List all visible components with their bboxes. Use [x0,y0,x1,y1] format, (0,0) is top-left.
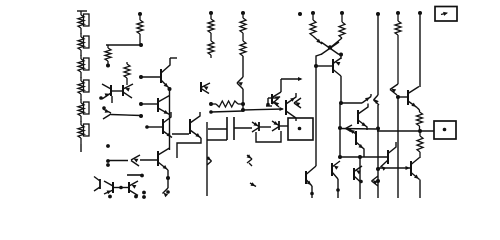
wire W33 [340,76,342,103]
wire W36 [340,128,376,131]
wire W22 [279,125,288,127]
node supply dot A3 [241,11,245,15]
box pad P2 [434,121,456,139]
wire W45 [377,130,434,132]
wire ladder top tick [77,10,87,12]
wire W12 [177,138,201,158]
node N4 [99,96,103,100]
resistor R11 [339,15,345,38]
resistor R1e [78,99,84,122]
node N39 [142,191,146,195]
resistor R8 [124,62,130,85]
node N1 [139,43,143,47]
node N32 [106,163,110,167]
wire W14 [242,104,244,110]
transistor Q37 [247,154,252,166]
node N30 [106,144,110,148]
node N10 [145,125,149,129]
wire W49 [140,159,157,161]
node N20 [338,155,342,159]
node N11 [209,102,213,106]
wire W2 [242,56,244,77]
node supply dot A2 [209,11,213,15]
pad P2 dot [443,128,447,132]
box pad P1 [435,7,457,22]
box pad P3 [288,118,313,140]
resistor R13 [417,110,423,131]
transistor Q2 [163,112,172,138]
node N23 [310,192,314,196]
transistor Q31 [381,142,397,171]
resistor R1c [78,55,84,78]
transistor Q8 [272,92,281,107]
resistor R1d [78,77,84,100]
wire W52 [113,187,129,189]
transistor Q12 [237,77,243,89]
transistor Q26 [354,166,362,183]
wire W31 [340,55,342,60]
wire W41 [397,97,399,198]
node supply dot A4 [298,12,302,16]
transistor Q21 [346,125,353,132]
resistor R9 [211,101,243,107]
node N35 [140,174,144,178]
transistor Q29 [390,84,398,95]
node N34 [166,190,170,194]
node N38 [134,195,138,199]
resistor R4 [208,15,214,33]
node supply dot A1 [138,12,142,16]
transistor Q22 [358,104,368,131]
capacitor C1 plate2 [233,117,235,140]
transistor Q15 [206,156,211,165]
wire W28 [313,36,322,44]
wire W35 [339,103,341,157]
transistor Q19 [294,98,301,108]
transistor Q18 [272,97,280,107]
node N26 [376,167,380,171]
wire ladder bottom [80,144,82,152]
wire W5 [111,96,113,103]
resistor R3 [105,45,111,64]
wire hbar W51 [127,174,143,176]
transistor Q34 [104,181,113,194]
transistor Q24 [332,161,340,198]
resistor R5 [208,33,214,58]
node N6 [139,114,143,118]
wire W16 [280,107,285,111]
wire W11 [172,133,189,135]
transistor Q27 [374,95,380,105]
wire W34 [341,102,362,104]
wire W23 [256,131,281,142]
node N15 [328,45,332,49]
transistor Q16 [252,122,259,132]
node N24 [359,180,363,184]
wire W20 [234,127,252,129]
node supply dot A9 [418,11,422,15]
node N14 [266,103,270,107]
transistor Q13 [102,84,111,99]
transistor Q10 [158,148,170,170]
wire W39 [377,14,379,95]
node N16 [339,53,343,57]
node N18 [339,101,343,105]
transistor Q25 [306,166,316,198]
transistor Q17 [272,121,279,131]
wire W43 [419,15,421,87]
wire W26 [280,79,282,92]
node N27 [376,179,380,183]
wire W9 [141,103,157,105]
wire W3 [242,89,244,104]
transistor Q30 [411,158,420,180]
trim bracket T1c [84,58,90,70]
node supply dot A7 [376,12,380,16]
transistor Q9 [201,82,210,94]
resistor R12 [395,15,401,84]
node N13 [241,108,245,112]
node supply dot A8 [396,11,400,15]
wire W44 [417,108,420,111]
node N7 [139,75,143,79]
wire W25 [281,77,303,81]
transistor Q4 [408,87,419,108]
node N12 [209,110,213,114]
trim bracket T1e [84,102,90,114]
node P3 dot [298,127,302,131]
node supply dot A5 [311,11,315,15]
transistor Q6 [158,96,170,115]
wire W30 [316,54,322,166]
node supply dot A6 [340,11,344,15]
node N17 [314,64,318,68]
wire W8 [169,89,171,150]
trim bracket T1b [84,36,90,48]
wire W21 [259,126,271,128]
transistor Q7 [286,93,296,121]
trim bracket T1f [84,124,90,136]
resistor R10 [310,15,316,36]
pad P1 arrow [441,12,448,16]
transistor Q5 [333,58,341,76]
wire rail W37 [340,156,387,158]
wire W24 [268,98,277,104]
wire W50 [167,170,169,188]
wire W29 [331,38,342,47]
node N31 [106,159,110,163]
transistor Q35 [129,181,138,196]
transistor Q1 [161,58,177,88]
resistor R2 [137,16,143,45]
wire W40 [377,105,379,198]
wire W32 [316,65,332,67]
resistor R7 [240,33,246,56]
wire W10 [147,126,162,128]
transistor Q11 [103,109,111,119]
wire W7 [141,76,160,78]
node N25 [376,127,380,131]
transistor Q33 [163,188,169,197]
wire W19 [206,122,208,196]
node N19 [338,126,342,130]
node N22 [336,188,340,192]
wire W42 [398,96,407,98]
wire W15 [243,109,283,110]
node N28 [396,95,400,99]
node N8 [168,87,172,91]
node N3 [241,102,245,106]
wire W46 [419,180,421,199]
transistor Q20 [362,94,371,103]
resistor R14 [417,131,423,158]
node N2 [106,64,110,68]
wire Xcross [321,42,339,55]
transistor Q3 [190,112,201,138]
node N9 [139,102,143,106]
resistor R1f [78,121,84,144]
transistor Q14 [123,84,133,98]
wire W38 [359,157,361,199]
transistor Q28 [372,176,379,186]
capacitor C1 plate1 [226,117,228,140]
transistor Q36 [94,177,100,192]
wire W17 [208,128,227,130]
resistor R1a [78,11,84,34]
wire W6 [111,115,141,116]
wire W27 [266,105,272,107]
node N40 [142,195,146,199]
node N37 [108,195,112,199]
transistor Q38 [250,182,256,186]
trim bracket T1d [84,80,90,92]
node N5 [102,106,106,110]
resistor R1b [78,33,84,56]
wire W47 [378,166,410,170]
wire W4 [111,90,123,92]
wire W48 [108,160,128,162]
transistor Q23 [349,129,364,157]
transistor Q32 [131,155,140,166]
node N36 [119,186,123,190]
resistor R6 [240,15,246,33]
node N29 [418,129,422,133]
node N33 [166,176,170,180]
wire W1 [106,44,141,46]
trim bracket T1a [84,14,90,26]
wire W18 [207,139,227,141]
wire W13 [211,111,243,112]
node N21 [358,155,362,159]
